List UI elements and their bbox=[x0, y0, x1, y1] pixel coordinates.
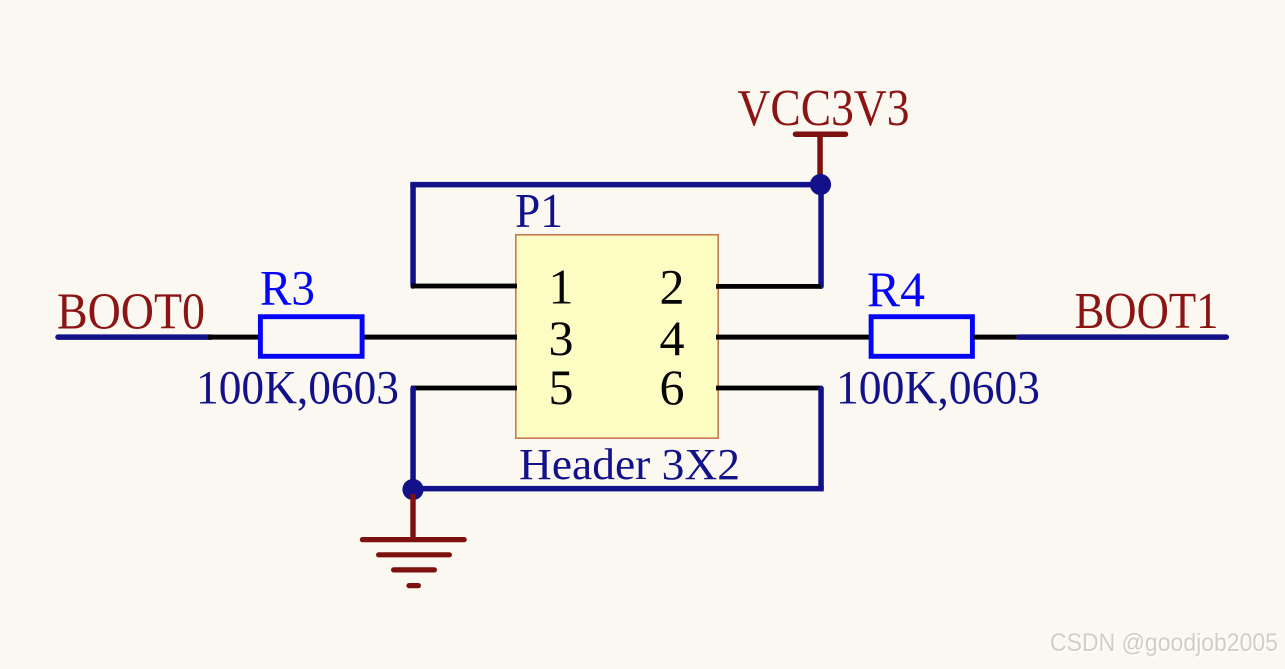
node VCC junction dot bbox=[810, 174, 831, 195]
ground bbox=[362, 494, 464, 586]
svg-text:Header 3X2: Header 3X2 bbox=[519, 440, 740, 489]
svg-text:3: 3 bbox=[549, 310, 574, 366]
svg-text:100K,0603: 100K,0603 bbox=[836, 362, 1040, 415]
svg-text:VCC3V3: VCC3V3 bbox=[738, 80, 910, 137]
svg-text:100K,0603: 100K,0603 bbox=[196, 362, 399, 415]
resistor R4 bbox=[871, 317, 972, 357]
power symbol VCC3V3 bbox=[738, 80, 910, 182]
svg-text:R3: R3 bbox=[260, 260, 315, 316]
svg-text:BOOT0: BOOT0 bbox=[57, 284, 205, 341]
svg-text:4: 4 bbox=[660, 310, 685, 366]
pin 1 stub bbox=[411, 284, 517, 289]
svg-text:CSDN @goodjob2005: CSDN @goodjob2005 bbox=[1050, 629, 1278, 657]
wire BOOT1 (navy segment under label) bbox=[1019, 334, 1226, 340]
svg-text:2: 2 bbox=[660, 259, 685, 315]
wire: right vertical from VCC node to pin 2 bbox=[818, 185, 824, 287]
svg-text:P1: P1 bbox=[515, 183, 563, 238]
pin 2 stub bbox=[716, 284, 821, 289]
wire: left vertical from top rail to pin 1 bbox=[410, 185, 416, 286]
svg-text:R4: R4 bbox=[867, 261, 925, 317]
wire: VCC3V3 top horizontal bbox=[410, 182, 821, 188]
pin 4 stub / wire to R4 bbox=[716, 335, 870, 340]
pin 6 stub bbox=[716, 386, 820, 391]
svg-text:6: 6 bbox=[660, 359, 685, 415]
wire: R4 to BOOT1 (black) bbox=[973, 335, 1022, 340]
wire: bottom horizontal bbox=[410, 486, 824, 492]
svg-text:1: 1 bbox=[549, 259, 574, 315]
svg-text:BOOT1: BOOT1 bbox=[1075, 283, 1219, 340]
pin 3 stub / wire to R3 bbox=[362, 335, 517, 340]
wire: right vertical pin 6 down bbox=[818, 388, 824, 488]
svg-text:5: 5 bbox=[549, 359, 574, 415]
wire: BOOT0 to R3 (black) bbox=[208, 335, 260, 340]
node ground junction dot bbox=[402, 479, 423, 500]
pin 5 stub bbox=[411, 386, 517, 391]
header P1 body bbox=[516, 235, 718, 438]
wire BOOT0 (navy segment under label) bbox=[58, 334, 211, 340]
wire: left vertical pin 5 to ground node bbox=[410, 388, 416, 488]
resistor R3 bbox=[260, 317, 362, 357]
